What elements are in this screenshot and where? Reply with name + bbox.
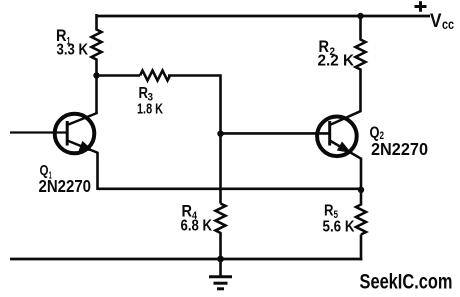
node junction Q2 base / R4 top bbox=[217, 131, 223, 137]
wire Q1 emitter vertical bbox=[96, 152, 99, 190]
label Vcc bbox=[430, 10, 454, 32]
wire R5 bottom lead bbox=[360, 235, 363, 261]
svg-text:1.8 K: 1.8 K bbox=[137, 101, 163, 118]
label Q2 bbox=[370, 125, 429, 160]
svg-text:R: R bbox=[324, 203, 334, 220]
resistor R4 bbox=[216, 204, 226, 261]
ground bbox=[209, 259, 232, 289]
wire bottom ground rail bbox=[10, 258, 362, 261]
node junction ground rail / R4 bbox=[217, 256, 224, 263]
label R1 bbox=[56, 27, 89, 59]
label R2 bbox=[318, 38, 355, 70]
svg-text:cc: cc bbox=[442, 17, 454, 32]
label R4 bbox=[181, 203, 213, 235]
transistor Q1 bbox=[55, 113, 98, 153]
svg-text:5.6 K: 5.6 K bbox=[323, 219, 355, 236]
wire Q2 base bbox=[221, 132, 330, 135]
resistor R1 bbox=[92, 14, 102, 76]
wire top supply rail bbox=[96, 15, 431, 18]
label Q1 bbox=[39, 162, 92, 196]
wire emitter rail Q1 to R5 bbox=[98, 188, 362, 191]
node junction top rail / R2 bbox=[357, 13, 363, 19]
Vcc plus sign bbox=[415, 1, 427, 12]
wire Q1 base lead bbox=[10, 131, 66, 133]
node junction emitter rail / R5 top bbox=[358, 187, 364, 193]
wire R3 left lead bbox=[97, 74, 141, 77]
svg-text:V: V bbox=[430, 10, 442, 32]
wire R3 right lead to vertical bbox=[168, 74, 222, 203]
svg-text:SeekIC.com: SeekIC.com bbox=[360, 271, 453, 294]
resistor R2 bbox=[356, 15, 366, 112]
label R5 bbox=[323, 203, 355, 236]
resistor R3 bbox=[140, 71, 170, 81]
svg-text:2N2270: 2N2270 bbox=[371, 139, 428, 159]
svg-text:6.8 K: 6.8 K bbox=[181, 218, 213, 235]
svg-text:3.3 K: 3.3 K bbox=[57, 42, 89, 59]
svg-text:2.2 K: 2.2 K bbox=[318, 53, 355, 70]
svg-text:2N2270: 2N2270 bbox=[39, 176, 92, 196]
label R3 bbox=[137, 85, 163, 118]
transistor Q2 bbox=[317, 111, 361, 159]
resistor R5 bbox=[356, 189, 366, 235]
wire Q1 collector vertical bbox=[95, 76, 98, 115]
wire Q2 emitter vertical bbox=[360, 158, 363, 191]
node junction R1 bottom / Q1 collector / R3 bbox=[93, 72, 99, 78]
